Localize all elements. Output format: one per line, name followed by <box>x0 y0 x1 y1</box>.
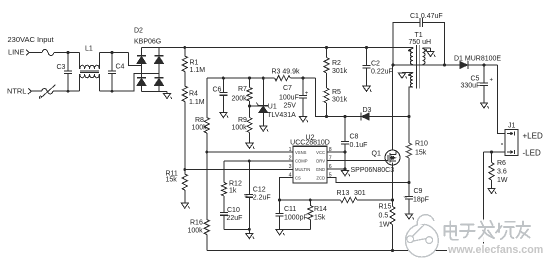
junction <box>248 160 251 163</box>
svg-text:KBP06G: KBP06G <box>134 39 161 46</box>
svg-text:R7: R7 <box>238 86 247 93</box>
svg-text:1W: 1W <box>497 177 508 184</box>
wire <box>393 64 459 66</box>
svg-text:+LED: +LED <box>523 132 543 141</box>
svg-text:3.6: 3.6 <box>497 169 507 176</box>
pin 7 DRV <box>316 155 332 163</box>
svg-text:C8: C8 <box>350 134 359 141</box>
capacitor C7 <box>279 78 309 117</box>
junction <box>111 51 114 93</box>
wire <box>316 78 362 116</box>
junction <box>391 249 394 252</box>
svg-text:200k: 200k <box>232 96 248 103</box>
svg-text:1: 1 <box>289 147 292 153</box>
connector J1 <box>501 123 518 156</box>
wire <box>184 72 186 87</box>
wire <box>184 102 186 170</box>
wire VCC <box>327 151 345 153</box>
wire <box>250 105 259 107</box>
svg-text:301: 301 <box>354 190 366 197</box>
svg-text:D1 MUR8100E: D1 MUR8100E <box>454 55 501 62</box>
wire COMP <box>224 160 293 162</box>
svg-text:1.1M: 1.1M <box>189 99 205 106</box>
svg-text:DRV: DRV <box>316 159 325 164</box>
junction <box>278 199 312 202</box>
svg-text:25V: 25V <box>284 103 297 110</box>
svg-text:CS: CS <box>295 176 301 181</box>
svg-text:R2: R2 <box>332 60 341 67</box>
pin 1 VSNS <box>289 147 307 155</box>
wire <box>468 64 498 66</box>
text -LED <box>523 149 541 158</box>
ground <box>427 48 435 57</box>
resistor R8 <box>192 78 210 133</box>
svg-text:750 uH: 750 uH <box>409 39 432 46</box>
junction <box>183 168 186 171</box>
wire CS <box>280 178 293 201</box>
svg-text:301k: 301k <box>332 68 348 75</box>
svg-text:L1: L1 <box>85 45 93 52</box>
ground <box>398 73 406 79</box>
wire <box>408 158 410 183</box>
svg-text:C12: C12 <box>253 186 266 193</box>
svg-text:GND: GND <box>316 167 325 172</box>
ground <box>276 230 284 236</box>
terminal LINE <box>8 48 29 57</box>
svg-text:15k: 15k <box>314 214 326 221</box>
junction <box>365 46 368 49</box>
svg-text:-LED: -LED <box>523 149 541 158</box>
ground <box>480 103 488 109</box>
svg-text:1k: 1k <box>229 188 237 195</box>
svg-text:22uF: 22uF <box>227 215 243 222</box>
wire <box>53 90 80 92</box>
junction <box>483 64 486 67</box>
wire <box>290 77 315 79</box>
inductor L1 <box>80 45 100 91</box>
resistor R3 <box>272 69 301 81</box>
junction <box>325 46 328 49</box>
diode D2b <box>155 56 164 64</box>
wire <box>357 199 393 201</box>
wire <box>141 85 143 91</box>
svg-text:D2: D2 <box>134 28 143 35</box>
bridge rectifier D2 KBP06G labels <box>134 28 161 46</box>
svg-text:C4: C4 <box>116 64 125 71</box>
wire <box>54 52 80 54</box>
resistor R2 <box>324 48 348 75</box>
text +LED <box>523 132 543 141</box>
ground <box>246 229 254 239</box>
wire bus <box>207 77 275 79</box>
resistor R6 <box>489 152 508 184</box>
ground <box>405 214 413 220</box>
svg-text:R6: R6 <box>497 160 506 167</box>
ground <box>341 169 349 176</box>
svg-text:www.elecfans.com: www.elecfans.com <box>447 244 543 256</box>
wire <box>99 52 128 54</box>
svg-text:C1 0.47uF: C1 0.47uF <box>410 13 443 20</box>
junction <box>67 51 70 93</box>
svg-text:0.1uF: 0.1uF <box>350 142 368 149</box>
ground <box>181 203 189 209</box>
svg-text:U1: U1 <box>268 103 277 110</box>
pin 5 ZCD <box>316 172 331 180</box>
svg-text:1000pF: 1000pF <box>284 214 308 221</box>
diode D2d <box>155 78 164 86</box>
capacitor C1 <box>393 13 445 65</box>
svg-text:18pF: 18pF <box>413 197 429 204</box>
diode D2a <box>137 56 146 64</box>
svg-text:Q1: Q1 <box>372 150 381 157</box>
svg-text:R16: R16 <box>190 219 203 226</box>
ground <box>299 117 307 123</box>
text 230VAC Input label <box>8 35 55 44</box>
wire <box>142 91 168 93</box>
svg-text:D3: D3 <box>363 107 372 114</box>
svg-text:R13: R13 <box>337 190 350 197</box>
wire <box>423 47 431 49</box>
resistor R14 <box>308 200 327 229</box>
wire <box>483 152 485 251</box>
wire <box>326 103 328 117</box>
junction <box>325 115 328 118</box>
wire <box>402 72 413 74</box>
fuse/breaker symbol on NTRL <box>39 85 55 99</box>
svg-text:301k: 301k <box>332 97 348 104</box>
resistor R5 <box>324 88 348 104</box>
svg-text:330uF: 330uF <box>461 83 481 90</box>
op-amp U2 UCC28810 box <box>290 134 330 183</box>
wire MULTIN <box>185 169 293 171</box>
svg-text:0.22uF: 0.22uF <box>371 69 393 76</box>
junction <box>248 228 251 231</box>
svg-text:R8: R8 <box>195 117 204 124</box>
junction <box>392 64 447 67</box>
svg-text:R9: R9 <box>238 117 247 124</box>
ground <box>363 86 371 92</box>
svg-text:100k: 100k <box>232 125 248 132</box>
wire <box>32 90 42 92</box>
resistor R12 <box>222 161 242 196</box>
svg-text:C7: C7 <box>283 85 292 92</box>
wire <box>280 228 311 230</box>
wire <box>141 63 143 78</box>
svg-text:R1: R1 <box>190 60 199 67</box>
ground <box>246 143 254 149</box>
ground <box>488 180 496 194</box>
capacitor C9 <box>404 183 429 214</box>
resistor R13 <box>337 190 366 203</box>
resistor R4 <box>182 86 205 106</box>
junction <box>490 151 493 154</box>
wire <box>224 228 249 230</box>
watermark logo and text <box>406 215 544 257</box>
fuse F1 <box>42 49 54 55</box>
wire <box>392 165 394 207</box>
svg-text:100k: 100k <box>192 125 208 132</box>
wire <box>158 85 160 91</box>
diode D2c <box>137 78 146 86</box>
pin 8 VCC <box>316 147 332 155</box>
svg-text:R3 49.9k: R3 49.9k <box>272 69 301 76</box>
svg-text:UCC28810D: UCC28810D <box>290 140 330 147</box>
capacitor C12 <box>244 161 271 229</box>
svg-text:VCC: VCC <box>316 150 325 155</box>
resistor R16 <box>188 152 210 235</box>
pin 3 MULTIN <box>289 164 311 172</box>
svg-text:ZCD: ZCD <box>316 176 325 181</box>
wire <box>484 151 506 153</box>
svg-text:15k: 15k <box>166 177 178 184</box>
junction <box>302 77 305 80</box>
capacitor C6 <box>213 78 228 112</box>
capacitor C2 <box>363 48 393 87</box>
resistor R7 <box>232 78 253 102</box>
junction <box>344 168 347 171</box>
svg-text:15k: 15k <box>415 150 427 157</box>
svg-text:1W: 1W <box>379 221 390 228</box>
svg-text:+: + <box>490 78 494 84</box>
wire <box>249 101 251 118</box>
svg-text:0.5: 0.5 <box>379 212 389 219</box>
svg-text:R14: R14 <box>314 206 327 213</box>
junction <box>248 105 251 108</box>
svg-text:NTRL: NTRL <box>7 87 26 96</box>
shunt regulator U1 TLV431A <box>256 78 296 126</box>
wire <box>206 235 208 251</box>
resistor R1 <box>182 48 205 75</box>
pin 2 COMP <box>289 155 308 163</box>
svg-text:C2: C2 <box>371 61 380 68</box>
svg-text:1.1M: 1.1M <box>190 67 206 74</box>
resistor R9 <box>232 117 253 133</box>
resistor R15 <box>379 203 396 228</box>
svg-text:C11: C11 <box>284 206 296 213</box>
svg-text:COMP: COMP <box>295 159 308 164</box>
wire <box>129 53 142 66</box>
wire DRV <box>327 160 385 162</box>
svg-text:T1: T1 <box>415 32 423 39</box>
svg-text:TLV431A: TLV431A <box>267 112 296 119</box>
wire <box>326 73 328 88</box>
svg-text:100uF: 100uF <box>279 95 299 102</box>
capacitor C3 <box>57 53 72 92</box>
svg-text:C3: C3 <box>57 64 66 71</box>
svg-text:100k: 100k <box>188 227 204 234</box>
pin 4 CS <box>289 172 301 180</box>
svg-text:2.2uF: 2.2uF <box>253 194 271 201</box>
wire <box>158 63 160 78</box>
wire <box>30 52 43 54</box>
transformer T1 <box>408 32 431 88</box>
junction <box>344 151 347 154</box>
junction <box>262 77 265 80</box>
wire <box>184 190 186 203</box>
wire GND <box>327 168 345 170</box>
svg-text:+: + <box>305 91 309 97</box>
junction <box>344 115 411 118</box>
ground <box>163 92 171 100</box>
svg-text:R4: R4 <box>189 91 198 98</box>
capacitor C4 <box>108 53 124 92</box>
svg-text:VSNS: VSNS <box>295 150 307 155</box>
wire <box>369 116 409 118</box>
junction <box>391 199 394 202</box>
diode D1 MUR8100E <box>454 55 501 69</box>
wire <box>158 48 160 57</box>
svg-text:MULTIN: MULTIN <box>295 167 310 172</box>
resistor R11 <box>166 170 188 191</box>
svg-text:C9: C9 <box>414 188 423 195</box>
ground <box>260 126 268 132</box>
capacitor C8 <box>341 117 367 170</box>
svg-text:230VAC Input: 230VAC Input <box>8 35 55 44</box>
diode D3 <box>361 107 372 120</box>
resistor R10 <box>406 140 428 158</box>
junction <box>183 46 186 49</box>
ground <box>220 112 228 118</box>
junction <box>222 77 225 80</box>
junction <box>248 77 251 80</box>
wire <box>498 65 506 134</box>
wire <box>392 225 394 251</box>
capacitor C10 <box>220 196 242 229</box>
wire <box>141 48 143 57</box>
wire bottom rail <box>207 250 484 252</box>
wire <box>99 73 159 91</box>
wire ZCD <box>327 178 409 183</box>
junction <box>205 151 208 154</box>
capacitor C5 <box>461 65 494 103</box>
svg-text:SPP06N80C3: SPP06N80C3 <box>351 167 395 174</box>
svg-text:C10: C10 <box>227 207 240 214</box>
wire VSNS <box>207 133 293 152</box>
svg-text:LINE: LINE <box>8 48 25 57</box>
svg-text:R15: R15 <box>379 203 392 210</box>
wire top rail <box>142 47 413 49</box>
wire <box>249 133 251 144</box>
junction <box>408 181 411 184</box>
svg-text:R5: R5 <box>332 89 341 96</box>
transistor Q1 SPP06N80C3 <box>351 65 401 174</box>
terminal NTRL <box>7 87 31 96</box>
pin 6 GND <box>316 164 332 172</box>
svg-text:J1: J1 <box>508 123 516 130</box>
capacitor C11 <box>276 200 308 230</box>
wire <box>280 199 341 201</box>
svg-text:R10: R10 <box>415 140 428 147</box>
wire <box>409 87 413 143</box>
